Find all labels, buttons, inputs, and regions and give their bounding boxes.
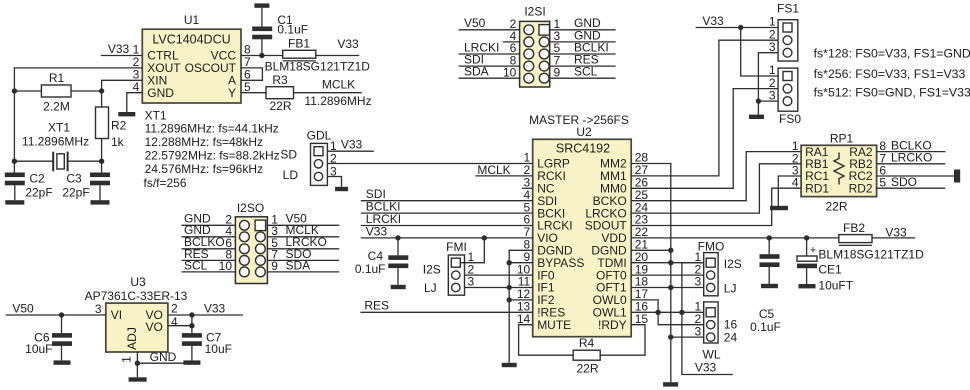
svg-text:C3: C3: [66, 172, 82, 186]
svg-text:C4: C4: [368, 249, 384, 263]
node IF2 junction: [507, 297, 512, 302]
FMI pin3 pad: [452, 283, 460, 291]
RP1 zigzag symbol: [834, 153, 844, 185]
I2SI pin number 10: [503, 65, 517, 79]
C7 value 10uF: [205, 342, 232, 356]
net BCLKI at I2SI right: [574, 40, 609, 54]
wire I2SI right: [550, 53, 616, 55]
U3 pin name VO4: [146, 320, 163, 334]
RP1 value 22R: [825, 200, 847, 214]
connector WL body: [704, 302, 718, 343]
svg-text:I2SO: I2SO: [237, 201, 264, 215]
capacitor C5: [760, 254, 780, 267]
wire R4 to RDY: [600, 325, 645, 356]
U3 reference label: [130, 275, 146, 289]
U2 pin name IF1: [537, 281, 555, 295]
node BYPASS junction: [507, 260, 512, 265]
U2 pin name LRCKI: [537, 219, 572, 233]
net GND label: [150, 350, 177, 364]
net RES at I2SO: [184, 247, 209, 261]
U1 pin number 4: [133, 80, 140, 94]
wire MM1 to FS1 pin2: [631, 40, 778, 176]
net GND at I2SO: [184, 223, 211, 237]
FS0 pin2 pad: [783, 84, 792, 93]
U1 pin number 6: [244, 68, 251, 82]
svg-text:SRC4192: SRC4192: [556, 141, 610, 155]
capacitor C7: [182, 333, 202, 346]
U3 pin number 2: [171, 302, 178, 316]
U1 pin name GND: [147, 86, 174, 100]
net MCLK at I2SO right: [286, 223, 319, 237]
CE1 label: [818, 263, 842, 277]
ground U2 right rail: [663, 382, 678, 386]
node C6 tap: [59, 312, 64, 317]
info fs 44.1kHz: [145, 121, 279, 135]
FS1 pin number 3: [769, 40, 776, 54]
op-amp U1 body: [142, 29, 241, 103]
FMO title: [698, 240, 725, 254]
svg-text:MCLK: MCLK: [322, 78, 355, 92]
WL title: [703, 348, 721, 362]
wire I2SI pin8 SDI: [459, 65, 520, 67]
I2SO left pad: [240, 267, 250, 277]
GDL pin2 pad: [314, 160, 322, 168]
wire V33 to VIO: [361, 237, 533, 239]
U3 pin number 1: [120, 356, 134, 363]
U2 pin number 11: [518, 275, 531, 289]
FS0 pin number 1: [769, 63, 776, 77]
wire I2SO left: [182, 259, 236, 261]
I2SI pin number 1: [554, 17, 561, 31]
wire VO to V33: [168, 314, 243, 316]
U1 pin number 1: [133, 43, 140, 57]
net SCL at I2SO: [184, 258, 208, 272]
node XT1 left: [12, 159, 17, 164]
R1 value 2.2M: [43, 100, 70, 114]
svg-text:4: 4: [133, 80, 140, 94]
RP1 pin number 4: [792, 176, 799, 190]
node OFT1 junction: [668, 285, 673, 290]
svg-text:V50: V50: [12, 302, 34, 316]
wire GDL pin2 to LGRP: [327, 163, 532, 165]
svg-text:LVC1404DCU: LVC1404DCU: [152, 33, 230, 47]
U2 pin number 20: [635, 250, 649, 264]
wire VCC to FB1: [241, 55, 283, 57]
wire SDI to U2: [361, 200, 533, 202]
net MCLK at RCKI: [477, 163, 510, 177]
svg-text:R1: R1: [49, 71, 65, 85]
FS0 pin number 2: [769, 76, 776, 90]
svg-text:5: 5: [244, 80, 251, 94]
node V33 FS drop: [738, 25, 743, 30]
U3 value AP7361C-33ER-13: [85, 289, 188, 303]
net V33 at U1 pin1: [108, 42, 130, 56]
svg-text:LD: LD: [283, 168, 299, 182]
wire left column: [13, 91, 15, 173]
R4 label: [579, 336, 595, 350]
U1 pin name XOUT: [147, 61, 181, 75]
node CE1 tap: [804, 235, 809, 240]
ground C4: [391, 285, 406, 289]
GDL pin number 2: [330, 152, 337, 166]
FS0 pin number 3: [769, 88, 776, 102]
net V50 at U3: [12, 302, 34, 316]
wire I2SI right: [550, 41, 616, 43]
I2SO pin number 7: [271, 248, 278, 262]
svg-text:10: 10: [219, 259, 233, 273]
C2 value 22pF: [25, 186, 52, 200]
svg-text:10: 10: [503, 65, 517, 79]
FMO pin number 2: [695, 262, 702, 276]
wire I2SI pin10 SDA: [459, 77, 520, 79]
U1 pin number 8: [244, 43, 251, 57]
FMO pin2 pad: [707, 271, 715, 279]
svg-text:V33: V33: [204, 302, 226, 316]
RP1 pin number 1: [792, 139, 799, 153]
wire C5 stem: [768, 238, 770, 254]
ground C2: [5, 200, 24, 204]
svg-text:3: 3: [769, 88, 776, 102]
svg-text:R2: R2: [111, 119, 127, 133]
U2 pin number 22: [635, 225, 649, 239]
I2SI pin number 8: [510, 53, 517, 67]
RP1 pin name RB2: [849, 157, 873, 171]
U2 pin name IF2: [537, 293, 555, 307]
C6 label: [34, 331, 50, 345]
R3 label: [272, 73, 288, 87]
net RES: [364, 299, 389, 313]
wire RC1 to ground: [778, 176, 801, 206]
svg-text:24.576MHz: fs=96kHz: 24.576MHz: fs=96kHz: [145, 162, 263, 176]
node R1 right: [99, 88, 104, 93]
capacitor C6: [52, 333, 72, 346]
wire BCLKI to U2: [361, 212, 533, 214]
net V50 at I2SO right: [286, 212, 308, 226]
svg-text:C5: C5: [759, 307, 775, 321]
I2SI pin number 7: [554, 53, 561, 67]
crystal XT1: [53, 152, 67, 172]
I2SI pin number 4: [510, 29, 517, 43]
GDL option SD: [280, 148, 297, 162]
wire I2SI right: [550, 65, 616, 67]
wire DGND stub right: [631, 249, 671, 251]
svg-text:FS1: FS1: [777, 2, 799, 16]
net BCLKI: [366, 200, 401, 214]
FS1 pin number 2: [769, 27, 776, 41]
wire I2SI pin2 V50: [459, 29, 520, 31]
svg-text:R4: R4: [579, 336, 595, 350]
net SDI at I2SI: [464, 53, 484, 67]
svg-text:10uF: 10uF: [205, 342, 232, 356]
svg-text:FB1: FB1: [288, 37, 310, 51]
svg-text:MUTE: MUTE: [537, 318, 571, 332]
I2SO title: [237, 201, 264, 215]
U2 pin number 7: [524, 225, 531, 239]
net LRCKI at I2SI: [464, 40, 499, 54]
resistor R3: [266, 87, 294, 99]
wire MUTE to R4: [519, 325, 574, 356]
ground C5: [761, 284, 778, 288]
node C5 tap: [767, 235, 772, 240]
U3 pin number 4: [171, 315, 178, 329]
net V33 at GDL: [341, 138, 363, 152]
svg-text:fs/f=256: fs/f=256: [144, 176, 187, 190]
wire NC stub: [522, 187, 533, 189]
svg-text:Y: Y: [228, 86, 236, 100]
svg-text:GND: GND: [147, 86, 174, 100]
svg-text:1k: 1k: [111, 135, 125, 149]
U2 pin number 25: [635, 188, 649, 202]
U2 pin name SDI: [537, 194, 557, 208]
RP1 pin name RA1: [805, 145, 829, 159]
wire SDOUT to RD1: [631, 188, 801, 225]
I2SO pin1 square: [255, 220, 266, 231]
FMO option I2S: [724, 257, 742, 271]
FS0 pin1 square: [783, 72, 792, 81]
I2SO pin number 9: [271, 259, 278, 273]
connector I2SO body: [235, 217, 267, 284]
wire VO pin4: [168, 325, 192, 327]
C3 label: [66, 172, 82, 186]
wire I2SO left: [182, 236, 236, 238]
wire C2 to ground: [14, 185, 16, 200]
net MCLK: [322, 78, 355, 92]
wire C1 stem lower: [261, 38, 263, 55]
info fs 88.2kHz: [145, 149, 280, 163]
I2SI pin number 6: [510, 41, 517, 55]
svg-text:9: 9: [554, 65, 561, 79]
svg-text:V33: V33: [885, 226, 907, 240]
svg-text:MCLK: MCLK: [477, 163, 510, 177]
FMI pin2 pad: [452, 271, 460, 279]
wire FB2 to V33: [872, 237, 915, 239]
wire CE1 stem: [806, 238, 808, 256]
net V33 at U3: [204, 302, 226, 316]
GDL title: [307, 129, 332, 143]
svg-text:!RDY: !RDY: [598, 318, 627, 332]
U2 mode label MASTER: [529, 113, 629, 127]
I2SO pin number 5: [271, 236, 278, 250]
MCLK frequency: [304, 94, 371, 108]
wire I2SO right: [267, 248, 339, 250]
wire RA2 BCLKO: [877, 151, 946, 153]
node R1 left: [12, 88, 17, 93]
U1 value label: [152, 33, 230, 47]
U2 pin name MUTE: [537, 318, 571, 332]
C6 value 10uF: [25, 342, 52, 356]
U2 pin number 12: [517, 287, 531, 301]
net SDO at I2SO right: [286, 247, 312, 261]
RP1 pin name RC1: [805, 169, 829, 183]
net V33 at VIO: [366, 224, 388, 238]
net SDA at I2SO right: [286, 258, 311, 272]
U2 pin name LGRP: [537, 157, 570, 171]
U2 pin number 26: [635, 176, 649, 190]
R4 value 22R: [576, 362, 598, 376]
I2SI pin1 square: [539, 25, 550, 35]
U2 pin number 9: [524, 250, 531, 264]
svg-text:0.1uF: 0.1uF: [355, 262, 386, 276]
svg-text:12.288MHz: fs=48kHz: 12.288MHz: fs=48kHz: [145, 135, 263, 149]
svg-text:R3: R3: [272, 73, 288, 87]
U2 pin name !RES: [537, 306, 565, 320]
svg-text:SDO: SDO: [891, 175, 917, 189]
I2SO left pad: [240, 256, 250, 266]
svg-text:I2S: I2S: [724, 257, 742, 271]
svg-text:15: 15: [635, 312, 649, 326]
C4 value 0.1uF: [355, 262, 386, 276]
svg-text:RD1: RD1: [805, 181, 829, 195]
U2 pin number 8: [524, 238, 531, 252]
node V33 C7 tap: [189, 312, 194, 317]
svg-text:9: 9: [271, 259, 278, 273]
text fs*128: [814, 47, 970, 61]
U2 pin name SDOUT: [585, 219, 628, 233]
wire FMI pin1 to V33: [461, 238, 485, 263]
U1 pin name OSCOUT: [185, 61, 237, 75]
svg-text:SDA: SDA: [286, 258, 311, 272]
I2SO right pad: [256, 232, 266, 242]
svg-text:3: 3: [695, 324, 702, 338]
ferrite bead FB2: [839, 235, 872, 246]
I2SO pin number 4: [225, 224, 232, 238]
FB1 label: [288, 37, 310, 51]
XT1 info title: [145, 109, 167, 123]
net BCLKO at I2SO: [184, 235, 225, 249]
wire I2SO left: [182, 248, 236, 250]
U3 pin number 3: [95, 302, 102, 316]
svg-text:SDA: SDA: [464, 65, 489, 79]
wire I2SI pin6 LRCKI: [459, 53, 520, 55]
svg-text:VI: VI: [111, 308, 122, 322]
info fs over f: [144, 176, 187, 190]
RP1 pin name RB1: [805, 157, 829, 171]
svg-text:LRCKO: LRCKO: [891, 151, 932, 165]
svg-text:U2: U2: [576, 125, 592, 139]
I2SI pin number 5: [554, 41, 561, 55]
net RES at I2SI right: [574, 53, 599, 67]
I2SI left pad row1: [524, 25, 534, 35]
node VCC C1: [259, 53, 264, 58]
ground C1 top: [254, 3, 269, 7]
net BCLKO: [891, 138, 932, 152]
text fs*256: [814, 67, 966, 81]
svg-text:V33: V33: [702, 14, 724, 28]
FS0 title: [779, 112, 801, 126]
U2 value SRC4192: [556, 141, 610, 155]
capacitor C1: [252, 27, 272, 40]
wire MM2 down: [631, 164, 671, 383]
U2 pin number 4: [524, 188, 531, 202]
wire FS1 pin3 to ground: [758, 53, 778, 115]
svg-text:22R: 22R: [576, 362, 598, 376]
wire V50 to VI: [6, 314, 106, 316]
FMO pin3 pad: [707, 283, 715, 291]
svg-text:WL: WL: [703, 348, 721, 362]
wire C7 to ground: [191, 346, 193, 361]
wire XT1 left: [14, 160, 53, 162]
info fs 48kHz: [145, 135, 263, 149]
node VO4 junction: [189, 323, 194, 328]
C2 label: [29, 172, 45, 186]
U2 pin number 13: [517, 300, 531, 314]
U2 pin name MM2: [600, 157, 627, 171]
I2SO left pad: [240, 232, 250, 242]
wire FMO pin1 V33 drop: [682, 263, 733, 375]
U2 pin number 21: [635, 238, 649, 252]
FMI pin number 3: [468, 275, 475, 289]
wire RD2 SDO: [877, 187, 946, 189]
svg-text:4: 4: [171, 315, 178, 329]
wire RES to U2: [361, 311, 533, 313]
connector FMI body: [448, 255, 464, 295]
wire LRCKI to U2: [361, 225, 533, 227]
wire V33 to FS1 pin1: [696, 27, 779, 29]
U2 pin number 15: [635, 312, 649, 326]
I2SI pin number 9: [554, 65, 561, 79]
wire VDD to FB2: [631, 237, 838, 239]
C1 label: [277, 13, 293, 27]
U2 pin number 19: [635, 262, 649, 276]
wire I2SO right: [267, 236, 339, 238]
capacitor C4: [388, 255, 408, 268]
RP1 pin name RC2: [849, 169, 873, 183]
U2 pin name BCKO: [593, 194, 627, 208]
wire I2SI right: [550, 29, 616, 31]
wire I2SO right: [267, 224, 339, 226]
wire R1 left: [14, 90, 41, 92]
wire I2SO left: [182, 271, 236, 273]
svg-text:11.2896MHz: fs=44.1kHz: 11.2896MHz: fs=44.1kHz: [145, 121, 279, 135]
U1 pin name Y: [228, 86, 236, 100]
GDL option LD: [283, 168, 299, 182]
FMO pin number 3: [695, 275, 702, 289]
capacitor CE1 plus: [810, 245, 816, 257]
U2 pin number 18: [635, 275, 649, 289]
U2 pin name MM1: [600, 169, 627, 183]
WL pin3 pad: [707, 333, 715, 341]
net GND at I2SI right: [574, 16, 601, 30]
U1 pin name A: [228, 74, 236, 88]
wire I2SO left: [182, 224, 236, 226]
FMI pin number 2: [468, 262, 475, 276]
node FMI1 tap: [482, 235, 487, 240]
wire DGND rail: [509, 250, 533, 362]
U2 pin number 16: [635, 300, 649, 314]
RP1 reference label: [830, 131, 854, 145]
wire I2SI right: [550, 77, 616, 79]
wire R1 right: [71, 90, 102, 92]
XT1 frequency: [22, 135, 89, 149]
U1 pin number 3: [133, 68, 140, 82]
svg-text:FMO: FMO: [698, 240, 725, 254]
connector FS0 body: [778, 68, 798, 111]
U2 pin name LRCKO: [585, 206, 626, 220]
I2SO pin number 1: [271, 213, 278, 227]
wire U1 GND pin: [127, 93, 143, 112]
I2SO left pad: [240, 220, 250, 230]
I2SO pin number 6: [225, 236, 232, 250]
FS1 pin3 pad: [783, 48, 792, 57]
wire ADJ to C7 ground: [137, 360, 192, 363]
GDL pin3 pad: [314, 172, 322, 180]
svg-text:V33: V33: [337, 37, 359, 51]
svg-text:GDL: GDL: [307, 129, 332, 143]
wire FB1 to V33: [316, 55, 359, 57]
wire C6 to ground: [61, 346, 63, 361]
net SCL at I2SI right: [574, 65, 598, 79]
net LRCKO: [891, 151, 932, 165]
